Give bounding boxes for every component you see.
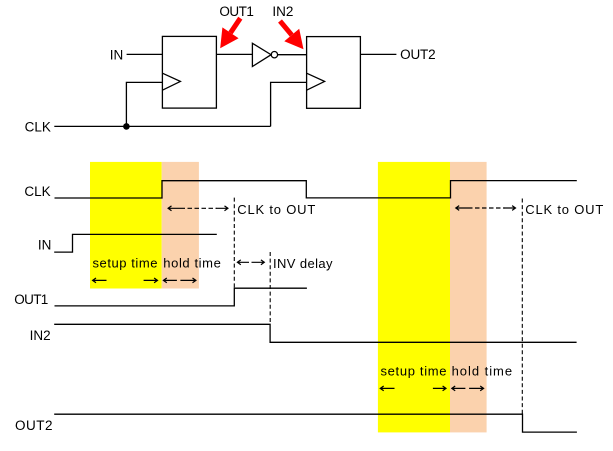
svg-text:OUT2: OUT2 <box>400 47 436 62</box>
svg-text:IN: IN <box>38 238 52 253</box>
svg-text:setup time: setup time <box>93 256 158 271</box>
svg-text:setup time: setup time <box>381 363 447 378</box>
svg-text:hold time: hold time <box>163 256 221 271</box>
svg-text:IN: IN <box>110 48 124 63</box>
svg-text:CLK: CLK <box>25 120 51 135</box>
svg-text:IN2: IN2 <box>30 328 51 343</box>
svg-text:OUT1: OUT1 <box>14 292 48 307</box>
svg-text:hold time: hold time <box>452 363 512 378</box>
svg-text:CLK to OUT: CLK to OUT <box>237 202 315 217</box>
svg-text:IN2: IN2 <box>272 4 293 19</box>
svg-text:CLK to OUT: CLK to OUT <box>525 202 603 217</box>
svg-text:OUT2: OUT2 <box>15 418 53 433</box>
svg-text:CLK: CLK <box>24 184 50 199</box>
svg-text:INV delay: INV delay <box>273 256 333 271</box>
svg-text:OUT1: OUT1 <box>219 4 254 19</box>
